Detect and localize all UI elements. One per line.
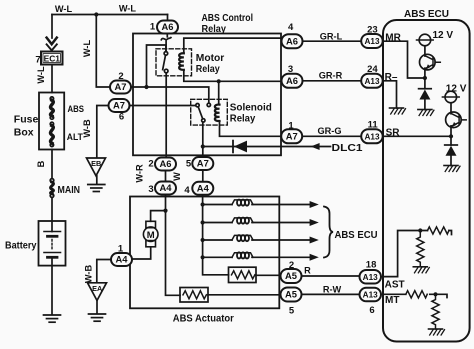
solenoid coil 1 [232,200,253,205]
connector A13 pin18 [360,270,382,284]
wire 12V to transistor Q1 [424,46,426,56]
svg-text:Relay: Relay [202,23,227,35]
wire motor to A4-1 [132,247,150,259]
node coil3 [201,238,205,242]
wire MT branch [381,294,447,297]
arrow from DLC1 [311,143,320,150]
resistor R4 vertical [417,231,424,267]
wire coil bottom to A6-3 [184,70,281,82]
svg-text:A4: A4 [197,183,210,194]
brace to ABS ECU [324,207,333,258]
wire motor relay switch to A6-2 [165,73,167,158]
svg-text:1: 1 [150,22,156,33]
svg-text:Fuse: Fuse [14,113,39,125]
svg-text:A5: A5 [285,289,297,300]
ground G1 [390,107,404,109]
wire coil top tap [218,81,221,104]
wire A7-6 into relay box [130,105,196,107]
node solenoid coil tap [217,79,221,83]
ground battery [44,314,61,316]
wire to pump motor [151,211,166,222]
wire A7-2 into relay box [131,87,209,103]
ground EA triangle [88,283,107,301]
svg-text:A7: A7 [286,131,298,142]
svg-text:A7: A7 [113,100,125,111]
svg-text:DLC1: DLC1 [332,143,364,154]
svg-text:W: W [172,172,182,181]
wire GR-L [303,40,362,42]
ground EB triangle [87,158,106,176]
svg-text:W-B: W-B [82,119,92,138]
arrowheads into EC1 [47,38,57,45]
svg-text:R-W: R-W [323,285,342,295]
svg-text:A4: A4 [116,254,129,265]
connector A13 pin11 [361,129,383,143]
svg-text:B: B [36,160,46,167]
svg-text:A6: A6 [162,21,174,32]
fuse ALT [50,122,53,125]
svg-text:W-L: W-L [119,4,137,14]
resistor R6 vertical [432,294,439,329]
wire R-W to A13-6 [302,293,360,295]
connector A7 pin2 [110,81,131,94]
svg-text:3: 3 [288,64,293,75]
wire GR-G [302,135,361,137]
ground G3 [444,165,458,167]
connector A5 pin2 [281,269,302,283]
12V source 1 [419,34,431,46]
wire n-branch A7-2 to motor relay switch [147,45,166,87]
connector A4 pin4 [192,182,213,195]
svg-text:MAIN: MAIN [58,185,81,196]
motor relay dashed box [156,49,192,76]
wire to ECU arrow 3 [203,239,310,241]
svg-text:AST: AST [385,279,405,290]
svg-text:11: 11 [368,120,379,131]
svg-text:23: 23 [367,25,378,36]
motor relay coil [179,53,184,70]
svg-text:W-B: W-B [84,265,94,284]
fuse box [39,93,64,150]
wire coil top to A6-4 [184,38,281,53]
node A7-2 branch [144,85,148,89]
svg-text:Relay: Relay [196,63,220,75]
wire Q1 to diode [424,68,426,89]
svg-text:A4: A4 [160,182,173,193]
wire A7-6 to EB ground [97,106,109,158]
svg-text:A6: A6 [160,158,172,169]
wire W-L top bus [52,14,168,16]
connector A13 pin23 [361,34,383,48]
node coil2 [201,220,205,224]
resistor R1 (to A5-2) [229,267,257,282]
node SR junction [449,134,453,138]
svg-text:A13: A13 [363,291,378,300]
svg-text:2: 2 [118,71,123,82]
solenoid relay dashed box [191,99,228,125]
12V source 2 [445,91,457,103]
wire R1 to A5-2 [256,274,281,276]
diode D3 [445,144,458,146]
wire R2 to A5-5 [208,294,281,296]
battery [39,221,66,266]
connector A4 pin3 [155,182,176,195]
wire drop to EC1 arrows [51,15,53,39]
svg-text:A6: A6 [286,75,298,86]
svg-text:24: 24 [367,64,378,75]
wire A6-2 to A4-3 [165,171,167,182]
connector A7 pin5 [192,157,213,170]
pump motor M [146,221,156,227]
svg-text:ALT: ALT [67,131,83,142]
wire A4-1 to EA ground [97,260,111,283]
svg-text:W-L: W-L [82,40,92,58]
svg-text:12 V: 12 V [433,30,454,41]
wire battery to ground [51,257,53,314]
solenoid coil 3 [232,235,253,240]
solenoid coil 2 [232,218,253,223]
svg-text:1: 1 [118,244,124,255]
svg-text:5: 5 [289,305,295,316]
svg-text:12 V: 12 V [446,83,467,94]
svg-text:Relay: Relay [230,113,256,125]
motor relay switch [164,52,168,56]
node MR junction [423,76,427,80]
svg-text:1: 1 [288,120,294,131]
connector A6 pin1 [157,21,178,34]
svg-text:18: 18 [366,259,377,270]
diode D1 [232,141,234,153]
svg-text:R–: R– [385,72,398,83]
connector A13 pin6 [360,288,382,302]
node MT junction [433,292,437,296]
svg-text:7: 7 [35,54,40,65]
node AST junction [418,228,422,232]
transistor Q2 [446,112,462,128]
wire solenoid switch to A7-5 [202,122,204,157]
connector A5 pin5 [281,288,302,302]
solenoid relay coil [215,105,220,121]
diode D2 [419,88,432,90]
svg-text:4: 4 [184,185,190,196]
connector A7 pin1 [281,129,302,143]
node top W-L junction [94,12,98,16]
svg-text:W-L: W-L [36,66,46,84]
ground G5 [429,328,443,330]
fuse ABS [50,97,53,100]
svg-text:A5: A5 [285,270,297,281]
svg-text:Box: Box [14,126,34,138]
node coil4 [201,255,205,259]
wire A6-1 squiggle to switch [161,34,171,52]
connector A7 pin6 [109,99,130,112]
svg-text:R: R [304,265,311,275]
connector EC1 [41,52,63,65]
wire R- to ground [383,81,397,108]
svg-text:A7: A7 [115,81,127,92]
svg-text:GR-L: GR-L [320,31,343,41]
wire MR to transistor chain [383,41,425,78]
wire to ECU arrow 1 [203,204,310,206]
wire 12V2 to Q2 [450,103,452,114]
connector A13 pin24 [361,74,383,88]
wire MAIN to battery [51,197,53,231]
ground G4 [413,266,427,268]
svg-text:5: 5 [186,159,192,170]
svg-text:EC1: EC1 [44,54,61,64]
connector A6 pin3 [282,74,303,88]
connector A6 pin2 [155,158,176,171]
svg-text:M: M [147,230,155,241]
connector A4 pin1 [111,253,132,266]
wire Q2 through SR to diode [450,126,452,145]
svg-text:A13: A13 [364,77,379,86]
ABS control relay box [133,34,281,156]
node DLC1 tap [201,144,205,148]
resistor R5 horizontal [406,291,427,298]
wire R to A13-18 [302,275,360,277]
wire GR-R [303,80,362,82]
svg-text:GR-G: GR-G [318,126,342,136]
wire drop to A6 pin1 [167,15,169,21]
wire to ECU arrow 4 [203,256,310,258]
svg-text:2: 2 [148,159,153,170]
resistor R2 (to A5-5) [180,288,208,303]
wire fuse box to MAIN [51,150,53,179]
solenoid relay switch [196,104,199,107]
svg-text:SR: SR [386,128,401,139]
svg-text:MT: MT [385,295,399,306]
wire AST branch [381,231,452,277]
svg-text:ABS: ABS [68,103,85,114]
svg-text:4: 4 [288,22,294,33]
wire A4-3 down into actuator [166,195,181,295]
connector A6 pin4 [282,34,303,48]
actuator box [130,197,279,309]
svg-text:Battery: Battery [5,239,37,251]
wire SR from A13-11 [383,135,451,137]
svg-text:ABS ECU: ABS ECU [404,9,449,20]
wire A4-4 down solenoid bus [203,195,229,275]
wire DLC1 branch [203,146,331,148]
ground G2 [418,109,432,111]
svg-text:ABS ECU: ABS ECU [335,230,378,241]
node motor tap [163,209,167,213]
svg-text:A13: A13 [364,132,379,141]
fusible link MAIN [50,179,54,183]
svg-text:EA: EA [92,284,103,293]
svg-text:6: 6 [119,112,124,123]
svg-text:GR-R: GR-R [319,71,343,81]
svg-text:A13: A13 [364,37,379,46]
svg-text:2: 2 [289,260,294,271]
svg-text:A7: A7 [197,158,209,169]
svg-text:A13: A13 [363,273,378,282]
node coil1 [201,202,205,206]
wire solenoid coil bottom to A7-1 [220,121,282,136]
svg-text:6: 6 [369,305,374,316]
wire EC1 to fuse box [51,65,53,93]
svg-text:MR: MR [385,32,401,43]
wire to ECU arrow 2 [203,222,310,224]
svg-text:W-R: W-R [135,164,145,183]
svg-text:3: 3 [148,184,153,195]
solenoid coil 4 [232,253,253,258]
svg-text:EB: EB [91,159,101,168]
wire A7-5 to A4-4 [202,170,204,181]
wire W-L vertical branch [96,15,110,88]
ABS ECU box [383,20,470,342]
transistor Q1 [420,54,436,70]
svg-text:W-L: W-L [55,4,73,14]
svg-text:A6: A6 [286,35,298,46]
svg-text:ABS Actuator: ABS Actuator [173,313,234,325]
resistor R3 horizontal [428,227,449,234]
connector ovals [109,21,383,302]
